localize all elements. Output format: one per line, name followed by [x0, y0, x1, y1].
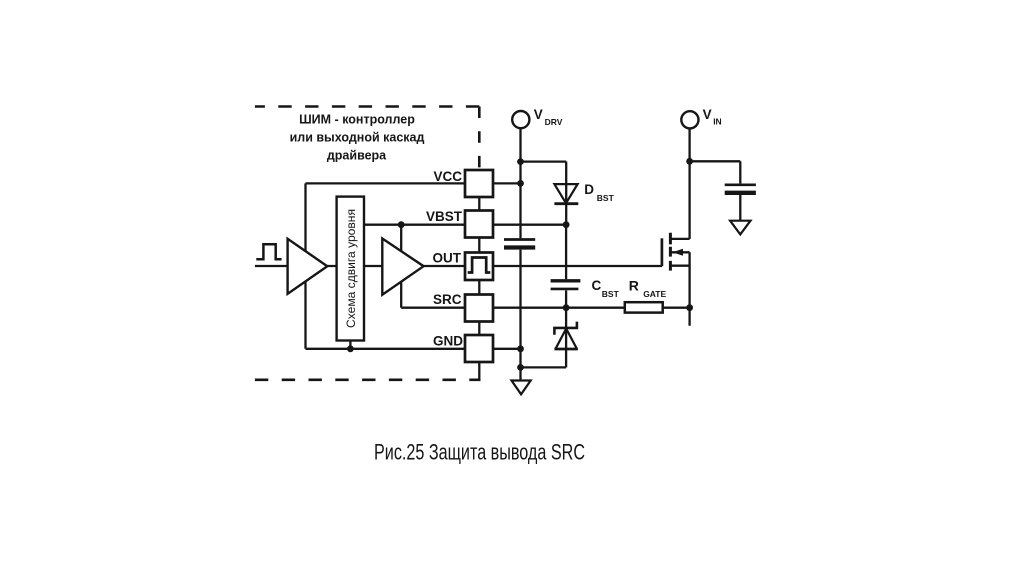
label R_GATE [629, 277, 667, 299]
svg-text:ШИМ - контроллер: ШИМ - контроллер [299, 113, 415, 127]
wire: OUT to mosfet gate [493, 265, 662, 267]
diode D_BST triangle [554, 184, 577, 203]
label C_BST [592, 278, 620, 299]
pin box VBST [465, 211, 493, 238]
node: VIN/cap junction [686, 158, 693, 165]
capacitor C_BST bottom plate [551, 288, 579, 291]
level shift block [337, 197, 364, 341]
label D_BST [584, 182, 614, 203]
wire: input cap top lead [739, 161, 741, 183]
pin box GND [465, 335, 493, 362]
wire: VCC to VDRV rail [493, 182, 521, 184]
wire: VCC feed from left rail [306, 182, 466, 184]
svg-text:OUT: OUT [433, 250, 462, 265]
dashed box right border upper [478, 107, 481, 171]
wire: buffer2 bottom to SRC line [400, 278, 402, 308]
wire: VDRV rail upper [519, 128, 521, 238]
pin box VCC [465, 170, 493, 197]
wire: CBST top lead [565, 225, 567, 280]
svg-text:SRC: SRC [433, 292, 462, 307]
wire: GND pin to rail [493, 348, 521, 350]
transistor Q1 source stub [670, 265, 689, 267]
transistor Q1 drain stub [670, 238, 689, 240]
node: level shift gnd junction [347, 345, 354, 352]
svg-text:драйвера: драйвера [327, 149, 387, 163]
svg-text:V: V [703, 107, 712, 122]
pin box OUT [465, 253, 493, 281]
wire: diode anode lead [565, 162, 567, 225]
transistor Q1 gate bar [661, 238, 664, 266]
resistor R_GATE [625, 302, 663, 312]
svg-text:GATE: GATE [643, 289, 666, 299]
transistor Q1 body stub [670, 251, 689, 253]
svg-text:VCC: VCC [433, 169, 462, 184]
wire: stub VCC-VBST [478, 197, 480, 211]
svg-text:BST: BST [602, 289, 620, 299]
zener Z1 cathode bar [554, 322, 577, 335]
svg-text:или выходной каскад: или выходной каскад [290, 131, 425, 145]
wire: SRC line internal [401, 307, 465, 309]
node: VDRV/diode junction [517, 158, 524, 165]
OUT pin pulse symbol [468, 258, 491, 273]
wire: source rail down [688, 252, 690, 325]
transistor Q1 channel segments [669, 233, 672, 271]
node: zener return junction [517, 364, 524, 371]
svg-text:C: C [592, 278, 602, 293]
diode D_BST cathode bar [554, 202, 578, 205]
wire: input to buffer 1 [255, 265, 340, 267]
VIN supply circle [681, 111, 698, 128]
svg-text:GND: GND [433, 333, 463, 348]
wire: CBST bottom lead [565, 290, 567, 307]
node: VCC/VDRV junction [517, 180, 524, 187]
wire: stub SRC-GND [478, 322, 480, 336]
op-amp U2 buffer triangle [382, 239, 423, 295]
op-amp U1 buffer triangle [288, 239, 328, 294]
zener Z1 triangle [556, 329, 577, 349]
wire: stub OUT-SRC [478, 280, 480, 295]
wire: stub GND to box bottom [478, 362, 480, 380]
label VIN [703, 107, 722, 127]
svg-text:Рис.25 Защита вывода SRC: Рис.25 Защита вывода SRC [374, 439, 585, 464]
svg-text:VBST: VBST [426, 209, 463, 224]
node: source junction [686, 304, 693, 311]
zener Z1 anode bar [554, 348, 578, 351]
wire: VBST to buffer2 supply [400, 225, 402, 254]
node: VBST/diode/CBST junction [563, 221, 570, 228]
capacitor C_BST top plate [551, 279, 581, 282]
wire: rail to ground symbol [519, 367, 521, 380]
wire: VIN rail to drain [688, 128, 690, 239]
pin box SRC [465, 295, 493, 322]
wire: input cap bottom lead [739, 195, 741, 221]
svg-text:BST: BST [597, 193, 615, 203]
svg-text:DRV: DRV [545, 117, 563, 127]
wire: VDRV to diode branch [521, 160, 567, 162]
wire: resistor to mosfet source [663, 307, 690, 309]
wire: SRC line to resistor [493, 307, 625, 309]
node: VBST junction [398, 221, 405, 228]
svg-text:D: D [584, 182, 594, 197]
capacitor C-vcc top plate [504, 238, 535, 241]
wire: VDRV rail lower [519, 250, 521, 368]
transistor Q1 body arrow [672, 249, 683, 256]
wire: VBST to diode/CBST junction [493, 224, 566, 226]
ground symbol left [512, 381, 531, 395]
svg-text:Схема сдвига уровня: Схема сдвига уровня [344, 209, 358, 328]
svg-text:V: V [534, 107, 543, 122]
label VDRV [534, 107, 563, 127]
input pulse waveform symbol [256, 244, 281, 259]
wire: level shift to buffer 2 and to OUT pin [364, 265, 465, 267]
svg-text:R: R [629, 277, 639, 293]
wire: GND feed to GND pin [306, 348, 466, 350]
wire: VBST line from level shift [364, 224, 465, 226]
capacitor C-in top plate [725, 183, 756, 186]
dashed box top border [255, 105, 479, 108]
dashed box bottom border [255, 378, 481, 381]
wire: stub VBST-OUT [478, 238, 480, 253]
node: GND rail junction [517, 345, 524, 352]
capacitor C-vcc bottom plate [504, 245, 535, 249]
wire: zener lead [565, 308, 567, 368]
wire: zener return to rail [521, 366, 567, 368]
wire: VIN to input cap [690, 160, 741, 162]
wire: left internal rail [304, 183, 306, 348]
wire: level shift to GND rail stub [349, 341, 351, 349]
node: SRC/CBST/zener junction [563, 304, 570, 311]
ground symbol right [730, 221, 750, 235]
svg-text:IN: IN [713, 117, 722, 127]
capacitor C-in bottom plate [725, 191, 756, 195]
VDRV supply circle [512, 111, 529, 128]
